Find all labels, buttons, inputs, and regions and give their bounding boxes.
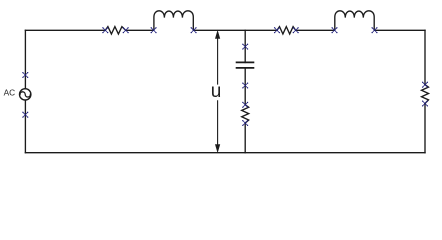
node L2 left bbox=[331, 27, 337, 33]
arrowhead up bbox=[215, 31, 219, 39]
node C1 top bbox=[242, 44, 248, 50]
node R2 right bbox=[293, 27, 299, 33]
wire left branch bbox=[24, 30, 26, 152]
node R1 right bbox=[123, 27, 129, 33]
svg-text:u: u bbox=[211, 81, 222, 102]
wire bottom rail bbox=[25, 152, 425, 154]
node AC top bbox=[22, 72, 28, 78]
svg-text:AC: AC bbox=[4, 88, 16, 98]
node R4 top bbox=[422, 82, 428, 88]
wire top rail bbox=[25, 29, 425, 31]
node R3 bottom bbox=[242, 120, 248, 126]
capacitor C1 bbox=[237, 62, 254, 68]
resistor R1 bbox=[105, 27, 125, 34]
inductor L1 bbox=[154, 11, 193, 31]
node L2 right bbox=[371, 27, 377, 33]
resistor R2 bbox=[277, 27, 296, 34]
wire right branch bbox=[424, 30, 426, 152]
voltage arrow u shaft bbox=[215, 31, 219, 152]
node C1 bottom bbox=[242, 82, 248, 88]
inductor L2 bbox=[335, 11, 374, 31]
node R3 top bbox=[242, 102, 248, 108]
node L1 left bbox=[151, 27, 157, 33]
node R1 left bbox=[102, 27, 108, 33]
node R4 bottom bbox=[422, 100, 428, 106]
resistor R3 (middle vertical) bbox=[242, 105, 249, 123]
node AC bottom bbox=[22, 112, 28, 118]
node L1 right bbox=[191, 27, 197, 33]
arrowhead down bbox=[215, 145, 219, 153]
AC source V1 circle bbox=[20, 89, 31, 100]
node R2 left bbox=[274, 27, 280, 33]
wire middle branch bbox=[244, 30, 246, 152]
resistor R4 (right vertical) bbox=[422, 85, 429, 104]
AC source sine wave bbox=[20, 92, 30, 97]
node marks (x) bbox=[22, 27, 428, 126]
